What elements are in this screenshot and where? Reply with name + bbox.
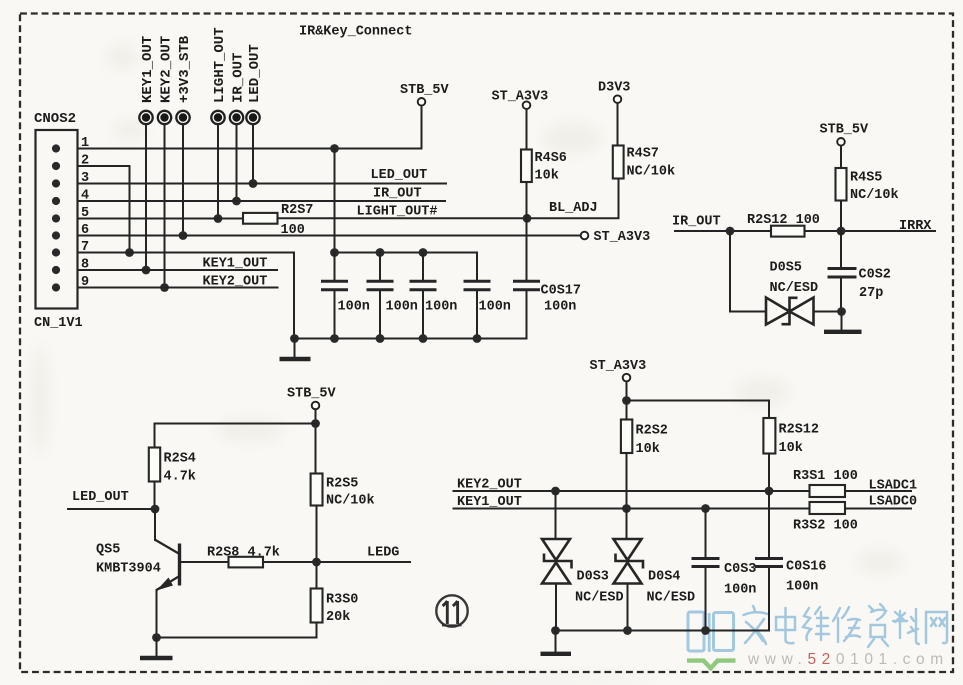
pin 4 number [81, 189, 89, 204]
node LED_OUT [68, 490, 159, 513]
svg-text:20k: 20k [326, 610, 350, 625]
svg-text:C0S2: C0S2 [859, 268, 891, 283]
power STB_5V top [400, 83, 450, 149]
svg-text:NC/10k: NC/10k [627, 165, 676, 180]
capacitor C0S3 [692, 509, 757, 631]
test point LED_OUT [246, 44, 262, 188]
svg-text:R2S4: R2S4 [164, 452, 196, 467]
diode D0S3 [542, 491, 624, 631]
capacitor 100n #1 [321, 253, 370, 339]
svg-text:C0S16: C0S16 [786, 560, 827, 575]
svg-text:D0S3: D0S3 [577, 570, 609, 585]
junction IRRX esd node [837, 307, 846, 316]
resistor R2S12 100 [747, 213, 820, 237]
svg-text:LIGHT_OUT: LIGHT_OUT [212, 27, 228, 103]
svg-text:4.7k: 4.7k [164, 470, 196, 485]
wire pin1 STB_5V [78, 144, 422, 153]
svg-text:R4S5: R4S5 [850, 171, 882, 186]
svg-text:100n: 100n [724, 583, 756, 598]
svg-text:100n: 100n [386, 300, 418, 315]
resistor R2S4 [149, 448, 196, 510]
svg-text:NC/10k: NC/10k [326, 494, 375, 509]
svg-text:R2S2: R2S2 [636, 424, 668, 439]
svg-text:10k: 10k [779, 441, 803, 456]
transistor QS5 KMBT3904 [96, 509, 180, 638]
svg-text:LIGHT_OUT#: LIGHT_OUT# [357, 205, 438, 220]
svg-text:100n: 100n [338, 300, 370, 315]
wire LIGHT_OUT# / BL_ADJ [278, 179, 619, 220]
watermark book icon [687, 612, 736, 668]
wire KEY1_OUT to LSADC0 [454, 495, 810, 513]
resistor R2S2 [621, 420, 668, 509]
svg-text:IRRX: IRRX [899, 219, 932, 234]
svg-text:CN_1V1: CN_1V1 [34, 316, 83, 331]
svg-text:NC/ESD: NC/ESD [647, 591, 696, 606]
pin 7 number [81, 240, 89, 255]
svg-text:LSADC0: LSADC0 [869, 495, 918, 510]
node sheet number 11 [436, 595, 467, 626]
svg-text:IR&Key_Connect: IR&Key_Connect [299, 25, 412, 40]
svg-text:LSADC1: LSADC1 [869, 479, 918, 494]
svg-text:ST_A3V3: ST_A3V3 [594, 230, 651, 245]
wire capacitor ground rail [290, 334, 526, 343]
svg-text:www.520101.com: www.520101.com [747, 651, 949, 668]
svg-text:D0S5: D0S5 [770, 261, 802, 276]
svg-text:STB_5V: STB_5V [400, 83, 450, 98]
svg-text:IR_OUT: IR_OUT [373, 187, 422, 202]
power D3V3 [598, 81, 630, 146]
resistor R4S7 [613, 146, 675, 180]
svg-text:LED_OUT: LED_OUT [72, 490, 129, 505]
svg-text:10k: 10k [636, 442, 660, 457]
svg-text:LED_OUT: LED_OUT [371, 168, 428, 183]
svg-text:LED_OUT: LED_OUT [247, 44, 263, 103]
svg-text:STB_5V: STB_5V [287, 387, 337, 402]
wire pin9 KEY2_OUT [78, 275, 278, 290]
svg-text:R3S1 100: R3S1 100 [793, 469, 858, 484]
svg-text:R2S8 4.7k: R2S8 4.7k [207, 546, 280, 561]
svg-text:27p: 27p [859, 286, 883, 301]
test point KEY2_OUT [158, 36, 175, 292]
title IR&Key_Connect [299, 25, 412, 40]
svg-text:ST_A3V3: ST_A3V3 [590, 359, 647, 374]
wire KEY2_OUT to LSADC1 [454, 478, 810, 496]
pin 1 number [81, 136, 89, 151]
svg-text:100n: 100n [544, 300, 576, 315]
wire pin4 IR_OUT [78, 187, 445, 202]
wire esd ground rail [551, 626, 769, 635]
svg-text:QS5: QS5 [96, 543, 120, 558]
capacitor C0S16 [755, 491, 827, 631]
capacitor C0S17 [513, 218, 581, 338]
resistor R2S8 4.7k [181, 546, 280, 568]
ground D0S5 C0S2 [824, 312, 862, 332]
wire IRRX net [805, 219, 936, 235]
svg-text:KMBT3904: KMBT3904 [96, 562, 161, 577]
pin 6 number [81, 223, 89, 238]
svg-text:R4S7: R4S7 [627, 147, 659, 162]
wire ST_A3V3 to R2S12 [627, 401, 770, 419]
svg-text:R3S0: R3S0 [326, 593, 358, 608]
power STB_5V right [820, 123, 870, 169]
svg-text:100n: 100n [479, 300, 511, 315]
svg-text:R3S2 100: R3S2 100 [793, 519, 858, 534]
svg-text:100n: 100n [425, 300, 457, 315]
wire LEDG net [263, 546, 410, 567]
svg-text:C0S3: C0S3 [724, 562, 756, 577]
wire pin6 ST_A3V3 [78, 230, 650, 245]
resistor R4S6 [521, 150, 567, 219]
pin 3 number [81, 171, 89, 186]
capacitor 100n #2 [367, 253, 418, 339]
svg-text:C0S17: C0S17 [541, 284, 582, 299]
svg-text:+3V3_STB: +3V3_STB [177, 35, 193, 103]
pin 5 number [81, 206, 89, 221]
watermark chinese text liao [893, 609, 919, 644]
watermark chinese text xiu [833, 607, 860, 642]
svg-text:KEY1_OUT: KEY1_OUT [203, 257, 268, 272]
watermark chinese text wang [926, 612, 947, 643]
svg-text:100n: 100n [786, 580, 818, 595]
connector CNOS2 [34, 111, 83, 331]
svg-text:R4S6: R4S6 [535, 151, 567, 166]
watermark chinese text wei [803, 607, 829, 640]
svg-text:10k: 10k [535, 169, 559, 184]
svg-text:CNOS2: CNOS2 [34, 111, 76, 127]
svg-text:KEY1_OUT: KEY1_OUT [140, 36, 156, 103]
wire STB_5V drop to capacitor rail [334, 149, 336, 253]
capacitor 100n #3 [410, 253, 458, 339]
capacitor 100n #4 [464, 253, 511, 339]
pin 2 number [81, 154, 89, 169]
pin 8 number [81, 258, 89, 273]
watermark chinese text dian [776, 608, 795, 643]
resistor R3S2 100 [793, 502, 858, 534]
svg-text:IR_OUT: IR_OUT [672, 215, 721, 230]
wire pin3 LED_OUT [78, 168, 446, 184]
svg-text:KEY2_OUT: KEY2_OUT [203, 275, 268, 290]
wire pin5 LIGHT_OUT [78, 218, 243, 220]
svg-text:STB_5V: STB_5V [820, 123, 870, 138]
svg-text:KEY2_OUT: KEY2_OUT [158, 36, 174, 103]
wire pin7 to ground rail [78, 253, 294, 339]
watermark chinese text jia [744, 606, 768, 644]
ground transistor [140, 638, 173, 659]
svg-text:NC/ESD: NC/ESD [575, 591, 624, 606]
resistor R3S0 [311, 562, 359, 638]
wire emitter ground rail [152, 633, 316, 642]
svg-text:NC/ESD: NC/ESD [770, 281, 819, 296]
svg-text:LEDG: LEDG [367, 546, 399, 561]
wire STB_5V to R2S4 [155, 424, 316, 448]
svg-text:D0S4: D0S4 [648, 570, 680, 585]
power ST_A3V3 top [492, 90, 549, 150]
test point LIGHT_OUT [211, 27, 228, 223]
svg-text:ST_A3V3: ST_A3V3 [492, 90, 549, 105]
svg-text:R2S12 100: R2S12 100 [747, 213, 820, 228]
svg-text:R2S5: R2S5 [326, 477, 358, 492]
diode D0S5 [730, 231, 842, 325]
node IR_OUT right [672, 215, 771, 236]
svg-text:NC/10k: NC/10k [850, 188, 899, 203]
ground cap rail [280, 339, 311, 360]
watermark url www.520101.com [747, 651, 949, 668]
junction BL_ADJ node [523, 214, 532, 223]
wire pin8 KEY1_OUT [78, 257, 277, 272]
power ST_A3V3 bottom right [590, 359, 647, 420]
node LSADC0 [845, 495, 917, 510]
svg-text:R2S7: R2S7 [281, 203, 313, 218]
resistor R3S1 100 [793, 469, 858, 497]
svg-text:D3V3: D3V3 [598, 81, 630, 96]
resistor R2S7 [243, 203, 313, 238]
wire pin2 jog to pin7 [78, 166, 134, 257]
svg-text:R2S12: R2S12 [779, 423, 820, 438]
pin 9 number [81, 275, 89, 290]
svg-text:BL_ADJ: BL_ADJ [549, 201, 598, 216]
test point +3V3_STB [176, 35, 193, 240]
test point KEY1_OUT [139, 36, 156, 275]
watermark chinese text zi [868, 604, 888, 647]
resistor R2S5 [311, 474, 375, 563]
svg-text:IR_OUT: IR_OUT [230, 53, 246, 103]
capacitor C0S2 [828, 231, 891, 312]
diode D0S4 [614, 509, 696, 631]
node LSADC1 [845, 479, 917, 494]
resistor R2S12 10k [763, 418, 819, 491]
resistor R4S5 [836, 168, 899, 231]
test point IR_OUT [230, 53, 247, 206]
ground esd rail [541, 631, 572, 654]
wire capacitor top rail [330, 248, 477, 257]
power STB_5V bottom left [287, 387, 337, 474]
